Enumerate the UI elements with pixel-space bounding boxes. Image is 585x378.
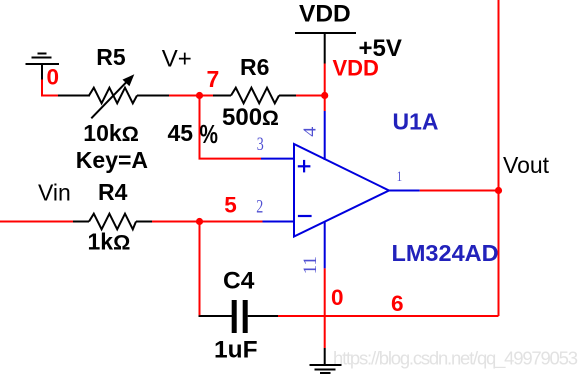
- svg-text:7: 7: [207, 66, 220, 92]
- svg-text:Key=A: Key=A: [76, 147, 148, 173]
- svg-text:1uF: 1uF: [214, 337, 258, 364]
- svg-text:0: 0: [47, 65, 60, 90]
- svg-text:https://blog.csdn.net/qq_49979: https://blog.csdn.net/qq_49979053: [333, 348, 578, 370]
- svg-text:4: 4: [300, 127, 320, 137]
- svg-text:45: 45: [168, 120, 194, 146]
- svg-text:R6: R6: [240, 54, 269, 80]
- svg-text:VDD: VDD: [333, 56, 379, 81]
- svg-text:0: 0: [331, 285, 344, 310]
- svg-text:Vin: Vin: [38, 180, 71, 206]
- svg-text:V+: V+: [162, 46, 192, 73]
- svg-text:5: 5: [224, 193, 237, 218]
- svg-text:%: %: [200, 119, 219, 149]
- svg-text:Vout: Vout: [503, 152, 550, 178]
- svg-text:LM324AD: LM324AD: [392, 240, 499, 266]
- svg-text:10kΩ: 10kΩ: [83, 120, 139, 146]
- svg-text:2: 2: [256, 198, 263, 218]
- svg-text:11: 11: [300, 256, 321, 274]
- svg-text:R4: R4: [98, 179, 128, 205]
- svg-text:3: 3: [257, 135, 264, 155]
- svg-text:6: 6: [391, 291, 404, 316]
- svg-text:C4: C4: [223, 268, 255, 295]
- svg-text:R5: R5: [96, 44, 126, 70]
- svg-text:U1A: U1A: [393, 109, 439, 135]
- svg-text:500Ω: 500Ω: [222, 104, 279, 131]
- svg-text:1: 1: [397, 169, 403, 185]
- svg-text:1kΩ: 1kΩ: [88, 229, 131, 255]
- svg-text:VDD: VDD: [299, 1, 351, 28]
